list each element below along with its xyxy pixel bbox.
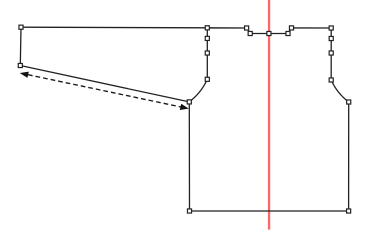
vertex handle D xyxy=(205,36,209,40)
vertex handle J xyxy=(347,100,351,104)
vertex handle A xyxy=(19,25,23,29)
vertex handle G xyxy=(187,100,191,104)
vertex handle L xyxy=(329,26,333,30)
vertex handle K3 xyxy=(329,36,333,40)
vertex handle N xyxy=(286,31,290,35)
vertex handle K xyxy=(329,78,333,82)
vertex handle F xyxy=(205,77,209,81)
vertex handle I xyxy=(347,209,351,213)
vertex handle K2 xyxy=(329,51,333,55)
vertex handle O xyxy=(267,31,271,35)
vertex handle M xyxy=(289,26,293,30)
drag direction dashed line xyxy=(28,75,181,107)
arrowhead right xyxy=(180,104,189,110)
axis line (red vertical revolve axis) xyxy=(268,0,270,230)
wire: slant edge B to G xyxy=(20,66,189,102)
vertex handle C xyxy=(205,26,209,30)
wire: top edge A to C xyxy=(21,26,207,29)
vertex handle B xyxy=(18,63,22,67)
wire: left edge A to B xyxy=(19,27,22,65)
profile outline (closed revolve profile polygon) xyxy=(189,28,348,211)
vertex handle E xyxy=(205,51,209,55)
vertex handle H xyxy=(187,209,191,213)
vertex handle Q xyxy=(245,26,249,30)
vertex handle P xyxy=(248,31,252,35)
arrowhead left xyxy=(20,72,29,78)
